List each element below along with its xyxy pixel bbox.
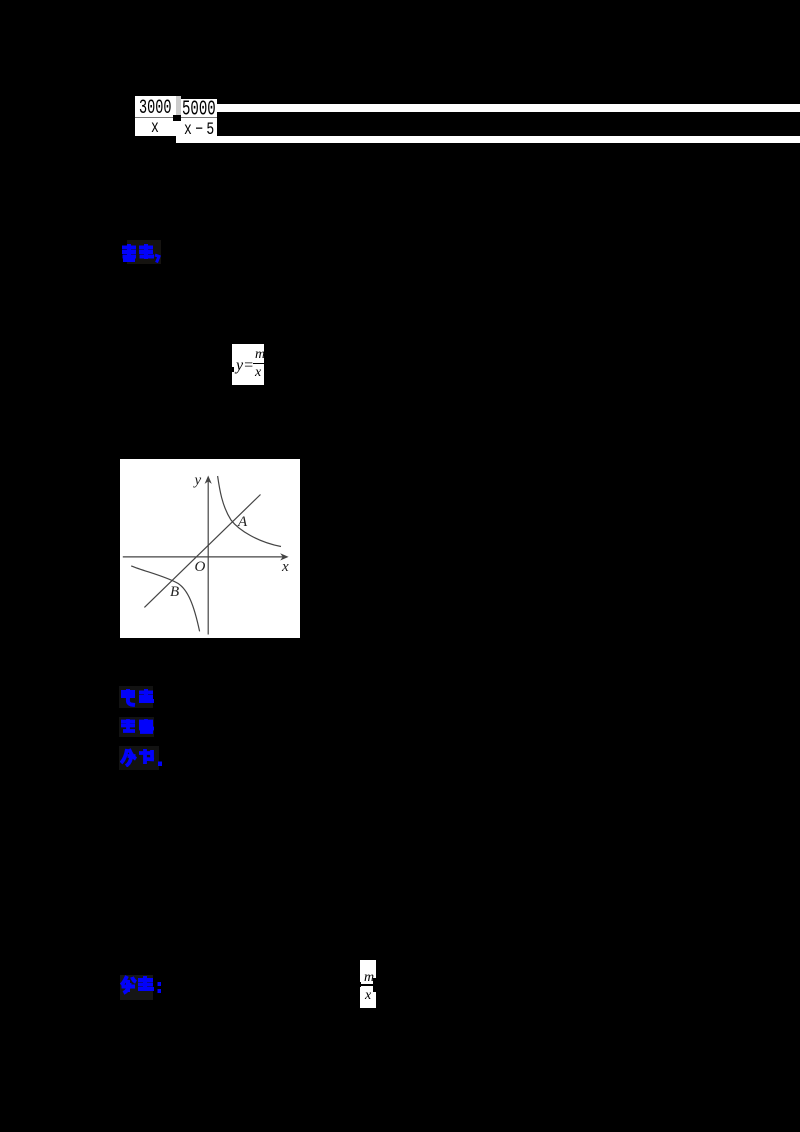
svg-text:B: B	[170, 584, 179, 600]
svg-text:O: O	[195, 559, 206, 575]
svg-text:x: x	[281, 559, 289, 575]
svg-text:A: A	[237, 514, 248, 530]
svg-text:y: y	[193, 473, 202, 489]
